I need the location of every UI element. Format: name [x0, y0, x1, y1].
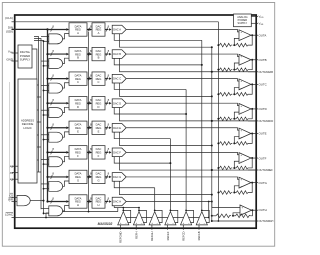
- wire buffer REFEF feedback: [170, 210, 177, 222]
- dac register D: [92, 97, 105, 110]
- bus width 8 after data reg F: [88, 150, 90, 154]
- bus width 8 after dac reg E: [106, 126, 108, 130]
- digital power supply box: [18, 45, 32, 68]
- bus width 8 after data reg D: [88, 101, 90, 105]
- svg-text:REFEF: REFEF: [166, 231, 170, 240]
- junction output node A: [251, 34, 253, 36]
- pin GND stub: [12, 60, 19, 62]
- wire data reg to dac reg H: [87, 200, 90, 202]
- DAC B: [112, 50, 126, 59]
- resistor RC1: [220, 92, 233, 96]
- pin WR stub: [12, 201, 18, 203]
- wire sense line DAC D: [120, 108, 257, 121]
- wire gate row A input 1: [41, 36, 49, 38]
- wire dac reg to dac E: [105, 127, 108, 129]
- wire LDAC line: [12, 217, 209, 219]
- wire op-amp D inverting input: [234, 112, 239, 119]
- dac register C: [92, 72, 105, 85]
- wire pin OUTGNDAB: [211, 71, 213, 73]
- wire gate row B input 1: [41, 60, 49, 62]
- data register D: [69, 97, 87, 110]
- svg-text:OUTG: OUTG: [259, 181, 268, 185]
- DAC C: [112, 74, 126, 83]
- wire enable rail: [34, 41, 44, 215]
- resistor RF2: [236, 166, 248, 170]
- bus width 8 after dac reg H: [106, 199, 108, 203]
- svg-text:DAC F: DAC F: [113, 150, 121, 154]
- wire reference jog DAC E: [114, 132, 170, 139]
- wire decode output stub: [37, 159, 39, 161]
- AND gate CS-WR: [17, 195, 30, 205]
- AND gate row H: [49, 206, 63, 216]
- svg-text:OUTGNDEF: OUTGNDEF: [259, 168, 274, 172]
- wire op-amp G inverting input: [234, 186, 239, 193]
- svg-text:OUTA: OUTA: [259, 33, 267, 37]
- DAC H: [112, 197, 126, 206]
- wire dac reg to dac H: [105, 200, 108, 202]
- wire gate row C output: [63, 83, 70, 88]
- bus width 8 after dac reg D: [106, 101, 108, 105]
- bus width 8 row H: [51, 199, 53, 203]
- svg-text:MAX5102: MAX5102: [98, 222, 113, 226]
- svg-text:REFH: REFH: [134, 231, 138, 238]
- junction REFGND rail A: [217, 44, 219, 46]
- wire sense line DAC F: [120, 157, 257, 170]
- wire gate row H input 2: [44, 212, 49, 214]
- wire data bus arrow row B: [48, 53, 67, 55]
- wire output pin OUTG: [251, 182, 258, 184]
- dac register B: [92, 47, 105, 60]
- pin A1 stub: [12, 172, 19, 174]
- wire reference jog DAC A: [114, 34, 202, 41]
- resistor RB1: [220, 68, 233, 72]
- svg-text:DATA: DATA: [75, 49, 82, 53]
- svg-text:REG: REG: [75, 101, 81, 105]
- svg-text:DAC D: DAC D: [113, 101, 121, 105]
- wire data bus arrow row A: [48, 29, 67, 31]
- dac register F: [92, 146, 105, 159]
- svg-text:DIGITAL: DIGITAL: [20, 50, 31, 54]
- data register B: [69, 47, 87, 60]
- wire gate row A input 2: [44, 40, 49, 42]
- svg-text:REFGH: REFGH: [150, 231, 154, 240]
- wire data reg to dac reg C: [87, 78, 90, 80]
- resistor RF1: [220, 166, 233, 170]
- wire feedback to output C: [248, 84, 252, 94]
- wire reference jog DAC C: [114, 83, 186, 90]
- wire data bus arrow row H: [48, 200, 67, 202]
- wire reference jog DAC D: [114, 108, 186, 115]
- data register G: [69, 170, 87, 183]
- resistor RH1: [216, 214, 231, 218]
- wire pin OUTGNDEF: [211, 169, 213, 171]
- wire gate row D input 2: [44, 114, 49, 116]
- wire data reg to dac reg G: [87, 176, 90, 178]
- wire ref line REFCD: [185, 89, 187, 210]
- junction feedback node A: [233, 44, 235, 46]
- svg-text:REG: REG: [75, 52, 81, 56]
- wire dac A output to op-amp: [127, 30, 240, 32]
- svg-text:OUTH: OUTH: [259, 208, 267, 212]
- dac register E: [92, 121, 105, 134]
- reference buffer REFGH: [149, 212, 160, 225]
- wire buffer REFGND feedback: [123, 210, 130, 222]
- pin (CLK) stub: [12, 21, 16, 23]
- wire gate row E output: [63, 132, 70, 137]
- svg-text:DAC: DAC: [96, 98, 102, 102]
- resistor RA2: [236, 43, 248, 47]
- op-amp D: [239, 104, 251, 115]
- wire feedback to output D: [248, 109, 252, 119]
- wire ref line REFAB: [201, 40, 203, 210]
- wire sense line DAC E: [120, 132, 212, 145]
- wire output pin OUTE: [251, 132, 258, 134]
- wire gate row G input 1: [41, 183, 49, 185]
- wire vertical data bus: [47, 29, 49, 201]
- wire data bus arrow row G: [48, 176, 67, 178]
- wire dac C output to op-amp: [127, 79, 240, 81]
- junction output node G: [251, 182, 253, 184]
- AND gate row D: [49, 108, 63, 118]
- wire feedback to output A: [248, 35, 252, 45]
- wire buffer REFH input: [135, 225, 137, 230]
- wire op-amp A inverting input: [234, 38, 239, 45]
- svg-text:(CLK): (CLK): [5, 16, 13, 20]
- junction DIN bus: [46, 28, 48, 30]
- junction REFGND rail E: [217, 142, 219, 144]
- wire sense line DAC A: [120, 34, 212, 47]
- wire decode output stub: [37, 96, 41, 98]
- wire feedback to output H: [251, 210, 253, 216]
- bus width 8 after data reg C: [88, 77, 90, 81]
- junction load line: [88, 211, 90, 213]
- svg-text:C: C: [98, 80, 100, 84]
- wire op-amp F inverting input: [234, 161, 239, 168]
- wire gate row C input 2: [44, 89, 49, 91]
- wire output pin OUTH: [251, 209, 258, 211]
- resistor RE2: [236, 142, 248, 146]
- wire data reg to dac reg E: [87, 127, 90, 129]
- op-amp B: [239, 54, 251, 65]
- junction feedback node G: [233, 192, 235, 194]
- svg-text:DATA: DATA: [75, 98, 82, 102]
- wire REFGND top rail: [15, 21, 218, 23]
- svg-text:DATA: DATA: [75, 172, 82, 176]
- reference buffer REFEF: [165, 212, 176, 225]
- op-amp E: [239, 128, 251, 139]
- svg-text:DATA: DATA: [75, 147, 82, 151]
- junction output node F: [251, 157, 253, 159]
- svg-text:DATA: DATA: [75, 123, 82, 127]
- junction output node E: [251, 132, 253, 134]
- pin A0 stub: [12, 165, 19, 167]
- svg-text:REFAB: REFAB: [197, 231, 201, 240]
- svg-text:DAC: DAC: [96, 24, 102, 28]
- junction output node B: [251, 59, 253, 61]
- data register C: [69, 72, 87, 85]
- wire dac reg to dac D: [105, 102, 108, 104]
- wire ref line REF2: [138, 208, 140, 211]
- svg-text:A: A: [77, 31, 79, 35]
- data register A: [69, 23, 87, 36]
- junction REFGND rail B: [217, 69, 219, 71]
- junction REFGND rail G: [217, 192, 219, 194]
- wire reference jog DAC G: [114, 181, 155, 188]
- svg-text:G: G: [97, 179, 99, 183]
- resistor RH2: [236, 214, 251, 218]
- dac register A: [92, 23, 105, 36]
- wire buffer REFAB input: [198, 225, 200, 230]
- wire output pin OUTB: [251, 59, 258, 61]
- svg-text:E: E: [98, 129, 100, 133]
- wire dac reg to dac A: [105, 29, 108, 31]
- AND gate row G: [49, 181, 63, 191]
- bus width 8 row E: [51, 126, 53, 130]
- svg-text:D: D: [98, 105, 100, 109]
- wire CS-WR gate output: [30, 200, 43, 202]
- resistor RB2: [236, 68, 248, 72]
- op-amp H: [240, 205, 252, 215]
- junction feedback node H: [232, 215, 234, 217]
- wire sense line DAC C: [120, 83, 212, 96]
- analog power supply box: [234, 14, 252, 27]
- svg-text:DAC: DAC: [96, 147, 102, 151]
- wire op-amp B inverting input: [234, 63, 239, 70]
- junction REFGND rail C: [217, 93, 219, 95]
- svg-text:DAC: DAC: [96, 49, 102, 53]
- data register H: [69, 195, 87, 208]
- DAC D: [112, 99, 126, 108]
- wire output pin OUTD: [251, 108, 258, 110]
- wire decode output stub: [37, 146, 41, 148]
- wire gate row E input 2: [44, 139, 49, 141]
- wire dac B output to op-amp: [127, 54, 240, 56]
- svg-text:OUTGNDAB: OUTGNDAB: [259, 70, 274, 74]
- wire output pin OUTF: [251, 157, 258, 159]
- wire gate row H output: [63, 206, 70, 211]
- wire ref line REFEF: [169, 139, 171, 211]
- pin A2 stub: [12, 178, 19, 180]
- wire aux rail: [208, 202, 210, 218]
- resistor RG1: [220, 191, 233, 195]
- wire data bus arrow row E: [48, 127, 67, 129]
- DAC A: [112, 25, 126, 34]
- svg-text:WR: WR: [8, 198, 14, 202]
- wire gate row F input 1: [41, 158, 49, 160]
- wire decode output stub: [37, 171, 41, 173]
- junction feedback node E: [233, 142, 235, 144]
- svg-text:DATA: DATA: [75, 196, 82, 200]
- svg-text:DAC: DAC: [96, 73, 102, 77]
- svg-text:POWER: POWER: [20, 54, 30, 58]
- op-amp F: [239, 153, 251, 164]
- junction H output route: [211, 200, 213, 202]
- junction feedback node F: [233, 167, 235, 169]
- wire buffer REFGH feedback: [155, 210, 162, 222]
- svg-text:REG: REG: [75, 175, 81, 179]
- wire data reg to dac reg A: [87, 29, 90, 31]
- resistor RD2: [236, 117, 248, 121]
- wire gate row C input 1: [41, 85, 49, 87]
- resistor RA1: [220, 43, 233, 47]
- wire dac F output to op-amp: [127, 152, 240, 154]
- op-amp G: [239, 177, 251, 188]
- wire buffer REFH feedback: [139, 210, 146, 222]
- wire gate row G output: [63, 181, 70, 186]
- pin AVSS stub: [251, 22, 258, 24]
- wire data reg to dac reg B: [87, 53, 90, 55]
- wire output pin OUTC: [251, 83, 258, 85]
- wire feedback to output B: [248, 60, 252, 70]
- svg-text:DAC: DAC: [96, 172, 102, 176]
- svg-text:DAC C: DAC C: [113, 77, 121, 81]
- wire ref line REFGH: [154, 188, 156, 211]
- bus width 8 after data reg E: [88, 126, 90, 130]
- wire gate row D input 1: [41, 109, 49, 111]
- svg-text:C: C: [77, 80, 79, 84]
- svg-text:DAC: DAC: [96, 123, 102, 127]
- AND gate row C: [49, 83, 63, 93]
- svg-text:OUTB: OUTB: [259, 58, 267, 62]
- wire op-amp H inverting input: [233, 213, 240, 216]
- junction aux crossing: [208, 201, 210, 203]
- svg-text:OUTGNDGH: OUTGNDGH: [259, 219, 274, 223]
- wire dac reg load line: [88, 32, 90, 212]
- svg-text:OUTGNDCD: OUTGNDCD: [259, 119, 274, 123]
- bus width 8 row G: [51, 175, 53, 179]
- wire gate row D output: [63, 107, 70, 112]
- op-amp A: [239, 30, 251, 41]
- AND gate row F: [49, 157, 63, 167]
- bus width 8 row A: [51, 28, 53, 32]
- AND gate row E: [49, 132, 63, 142]
- wire dac H output to op-amp: [126, 201, 240, 207]
- wire dac reg to dac G: [105, 176, 108, 178]
- wire feedback to output G: [248, 183, 252, 193]
- svg-text:REG: REG: [96, 175, 102, 179]
- junction enable rail: [43, 200, 45, 202]
- svg-text:OUTD: OUTD: [259, 107, 267, 111]
- svg-text:LOGIC: LOGIC: [23, 126, 31, 130]
- dac register H: [92, 195, 105, 208]
- wire pin OUTGNDGH: [212, 220, 258, 222]
- wire sense line DAC G: [120, 181, 212, 194]
- wire gate row B output: [63, 58, 70, 63]
- bus width 8 row D: [51, 101, 53, 105]
- AND gate row A: [49, 34, 63, 44]
- wire dac D output to op-amp: [127, 103, 240, 105]
- svg-text:DATA: DATA: [75, 24, 82, 28]
- DAC F: [112, 148, 126, 157]
- wire data bus arrow row C: [48, 78, 67, 80]
- wire data reg to dac reg F: [87, 151, 90, 153]
- DAC E: [112, 123, 126, 132]
- svg-text:REG: REG: [96, 28, 102, 32]
- wire buffer REFAB feedback: [202, 210, 209, 222]
- bus width 8 after data reg H: [88, 199, 90, 203]
- svg-text:DAC E: DAC E: [113, 126, 121, 130]
- wire dac reg to dac F: [105, 151, 108, 153]
- svg-text:E: E: [77, 129, 79, 133]
- wire buffer REFCD feedback: [186, 210, 193, 222]
- reference buffer REFGND: [118, 212, 129, 225]
- wire buffer REFEF input: [167, 225, 169, 230]
- svg-text:DAC G: DAC G: [113, 175, 121, 179]
- wire pin OUTGNDCD: [211, 120, 213, 122]
- wire gate row B input 2: [44, 65, 49, 67]
- wire digital supply feed: [32, 49, 37, 79]
- svg-text:D: D: [77, 105, 79, 109]
- junction feedback node B: [233, 69, 235, 71]
- junction output node D: [251, 108, 253, 110]
- bus width 8 after dac reg F: [106, 150, 108, 154]
- wire op-amp C inverting input: [234, 88, 239, 95]
- junction output node C: [251, 83, 253, 85]
- bus width 8 after dac reg C: [106, 77, 108, 81]
- wire buffer REFCD input: [182, 225, 184, 230]
- data register E: [69, 121, 87, 134]
- junction feedback node D: [233, 118, 235, 120]
- op-amp C: [239, 79, 251, 90]
- dac register G: [92, 170, 105, 183]
- bus width 8 row F: [51, 150, 53, 154]
- svg-text:H: H: [98, 203, 100, 207]
- junction feedback node C: [233, 93, 235, 95]
- svg-text:DAC: DAC: [96, 196, 102, 200]
- wire gate row F output: [63, 156, 70, 161]
- svg-text:H: H: [77, 203, 79, 207]
- wire data bus arrow row F: [48, 151, 67, 153]
- svg-text:REG: REG: [75, 28, 81, 32]
- bus width 8 row C: [51, 77, 53, 81]
- address decode logic box: [18, 79, 37, 183]
- wire OUTGND sense rail: [211, 47, 213, 221]
- chip border: [15, 15, 257, 228]
- wire dac E output to op-amp: [127, 128, 240, 130]
- bus width 8 after dac reg G: [106, 175, 108, 179]
- bus width 8 after dac reg A: [106, 28, 108, 32]
- wire ref jog DAC H: [113, 206, 115, 208]
- resistor RC2: [236, 92, 248, 96]
- wire gate row F input 2: [44, 163, 49, 165]
- wire buffer REFGND input: [120, 225, 122, 230]
- wire dac reg to dac B: [105, 53, 108, 55]
- scan artifact line: [9, 82, 11, 202]
- wire gate row A output: [63, 34, 70, 39]
- svg-text:REG: REG: [96, 101, 102, 105]
- wire output pin OUTA: [251, 34, 258, 36]
- wire decode output stub: [37, 121, 41, 123]
- svg-text:DAC B: DAC B: [113, 52, 121, 56]
- wire decode output stub: [37, 84, 39, 86]
- svg-text:DECODE: DECODE: [22, 122, 34, 126]
- svg-text:DATA: DATA: [75, 73, 82, 77]
- pin AVDD stub: [251, 16, 258, 18]
- svg-text:SUPPLY: SUPPLY: [238, 22, 248, 25]
- svg-text:REFGND: REFGND: [119, 231, 123, 242]
- svg-text:REG: REG: [96, 52, 102, 56]
- reference buffer REFAB: [196, 212, 207, 225]
- wire buffer REFGH input: [151, 225, 153, 230]
- svg-text:REG: REG: [75, 200, 81, 204]
- svg-text:OUTC: OUTC: [259, 83, 267, 87]
- svg-text:B: B: [98, 56, 100, 60]
- wire decode output stub: [37, 109, 39, 111]
- bus width 8 row B: [51, 52, 53, 56]
- wire DIN data bus entry: [12, 28, 48, 30]
- wire gate row E input 1: [41, 134, 49, 136]
- svg-text:REG: REG: [75, 151, 81, 155]
